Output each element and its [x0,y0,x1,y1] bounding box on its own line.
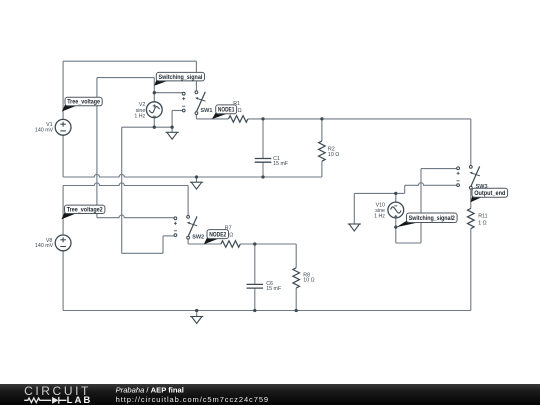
svg-text:140 mV: 140 mV [35,243,54,249]
svg-text:1 Ω: 1 Ω [478,221,486,227]
svg-text:LAB: LAB [67,395,93,405]
svg-text:R11: R11 [478,213,487,219]
svg-text:15 mF: 15 mF [273,161,289,167]
svg-text:SW1: SW1 [201,108,213,114]
svg-text:SW2: SW2 [192,235,204,241]
svg-text:NODE1: NODE1 [218,107,235,114]
svg-text:Tree_voltage2: Tree_voltage2 [67,206,103,213]
svg-text:1 Hz: 1 Hz [134,113,145,119]
svg-text:Prabaha / AEP final: Prabaha / AEP final [116,385,184,394]
svg-text:Output_end: Output_end [474,190,505,197]
svg-text:1 Hz: 1 Hz [374,214,385,220]
svg-text:http://circuitlab.com/c5m7ccz2: http://circuitlab.com/c5m7ccz24c759 [116,395,269,404]
svg-text:15 mF: 15 mF [266,286,282,292]
svg-text:Switching_signal2: Switching_signal2 [409,215,456,222]
svg-text:NODE2: NODE2 [209,231,226,238]
svg-text:10 Ω: 10 Ω [303,278,314,284]
svg-text:Switching_signal: Switching_signal [159,74,203,81]
svg-text:10 Ω: 10 Ω [328,152,339,158]
svg-text:Tree_voltage: Tree_voltage [67,99,100,106]
svg-text:140 mV: 140 mV [35,128,54,134]
